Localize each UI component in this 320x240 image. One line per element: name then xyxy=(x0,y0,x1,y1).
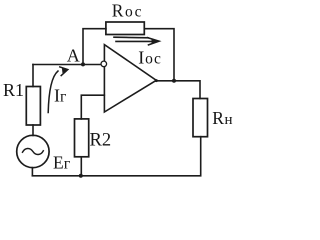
wire R2 top lead to non-inverting input xyxy=(81,95,104,119)
svg-text:R2: R2 xyxy=(90,130,112,150)
wire Eg bottom lead xyxy=(31,168,33,176)
resistor R1 xyxy=(26,87,40,126)
svg-text:Iг: Iг xyxy=(54,86,66,106)
wire Rn bottom lead xyxy=(200,137,202,176)
wire node A horizontal to inverting input bubble xyxy=(33,64,101,66)
svg-text:А: А xyxy=(67,46,80,66)
sine wave inside Eg xyxy=(23,148,44,154)
svg-text:Rос: Rос xyxy=(112,1,143,21)
junction op-amp apex xyxy=(155,79,158,82)
junction bottom rail / R2 xyxy=(79,174,83,178)
wire bottom rail xyxy=(32,175,200,177)
wire R2 bottom lead xyxy=(80,157,82,176)
wire from node A up and right to Roc left lead xyxy=(83,29,106,65)
resistor Rn xyxy=(193,99,208,137)
wire R1 bottom lead to source Eg xyxy=(32,125,34,136)
inverting input bubble xyxy=(101,61,107,67)
svg-text:Iос: Iос xyxy=(138,47,161,67)
op-amp U1 xyxy=(104,45,156,112)
svg-text:Ег: Ег xyxy=(53,153,71,173)
junction output node xyxy=(172,79,176,83)
resistor R2 xyxy=(75,119,89,157)
svg-text:R1: R1 xyxy=(3,80,24,100)
wire from Roc right lead, right riser down to output node xyxy=(144,29,174,81)
wire R1 top lead xyxy=(32,65,34,87)
wire op-amp output to Rn top lead xyxy=(156,81,200,99)
resistor Roc xyxy=(106,22,144,35)
Ig curved arrow xyxy=(48,67,68,113)
source Eg circle xyxy=(17,135,49,167)
Ioc arrow xyxy=(114,37,160,45)
junction node A xyxy=(81,62,85,66)
